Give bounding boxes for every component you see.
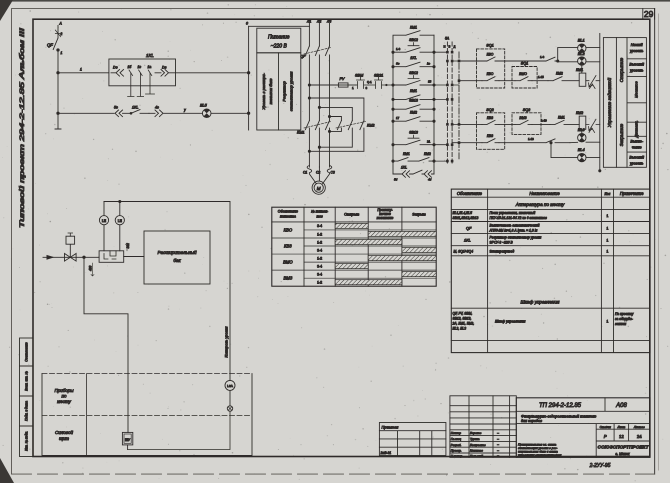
- contactor KM1 main contacts: [297, 121, 331, 135]
- svg-text:С3: С3: [331, 171, 335, 175]
- svg-text:1: 1: [606, 250, 608, 254]
- limit switch box SQ2: [477, 108, 505, 150]
- svg-text:за оборудо-: за оборудо-: [614, 317, 634, 321]
- lamp branch EL1: [557, 48, 600, 63]
- svg-text:1KL: 1KL: [410, 56, 416, 60]
- button SB12 rung: [392, 38, 435, 53]
- svg-text:~: ~: [497, 443, 499, 447]
- motor M: [312, 181, 325, 194]
- svg-text:Низкий: Низкий: [631, 43, 643, 47]
- svg-text:КВЗ: КВЗ: [284, 244, 292, 249]
- contact table headers: [278, 208, 426, 220]
- signal wire to control line: [104, 200, 230, 380]
- lamp branch EL4: [550, 142, 600, 158]
- component table headers: [457, 191, 644, 196]
- wire rung open to lamps: [499, 55, 558, 61]
- svg-text:1: 1: [80, 68, 82, 72]
- terminal strip dashed lines 5A: [444, 37, 456, 164]
- svg-text:Силовой: Силовой: [55, 429, 74, 435]
- project name: [521, 414, 596, 423]
- svg-text:1-2: 1-2: [317, 256, 322, 260]
- svg-text:Высокий: Высокий: [629, 156, 644, 160]
- svg-text:Открытие: Открытие: [619, 57, 624, 82]
- svg-text:КВО: КВО: [487, 72, 494, 76]
- svg-text:2-2УУ-95: 2-2УУ-95: [589, 463, 611, 469]
- svg-text:КМ1: КМ1: [558, 115, 565, 119]
- svg-text:kо: kо: [427, 61, 430, 65]
- svg-text:№ контак-: № контак-: [311, 210, 329, 214]
- svg-text:КВЗ: КВЗ: [487, 134, 494, 138]
- scan corner bottom-left: [0, 458, 14, 483]
- svg-text:12: 12: [619, 434, 624, 439]
- svg-text:Б: Б: [449, 45, 451, 49]
- svg-text:Начмор: Начмор: [451, 431, 462, 435]
- svg-text:SB21: SB21: [374, 74, 383, 78]
- rung close: KVZ contact: [459, 116, 499, 125]
- svg-text:А08: А08: [615, 403, 627, 409]
- svg-text:1: 1: [606, 239, 608, 243]
- svg-text:Разраб.: Разраб.: [451, 443, 462, 447]
- svg-text:4с: 4с: [155, 106, 159, 110]
- svg-text:Л2: Л2: [316, 20, 321, 24]
- svg-text:г. Минск: г. Минск: [615, 452, 630, 456]
- svg-text:ЭРСУ-3 ~220 В: ЭРСУ-3 ~220 В: [490, 241, 514, 245]
- svg-text:Турина: Турина: [470, 437, 480, 441]
- svg-text:1: 1: [61, 51, 63, 55]
- table Привязан: [379, 423, 446, 456]
- cabinet ШУ: [122, 432, 132, 449]
- ladder right rail: [433, 35, 435, 174]
- contact state bars (hatched): [335, 223, 436, 284]
- signature rows text: [451, 431, 499, 458]
- motor leads C1 C2 C3: [303, 166, 335, 184]
- svg-text:Лист: Лист: [617, 425, 626, 429]
- organization: [598, 445, 650, 456]
- interlock contact KM1: [550, 115, 579, 124]
- contact Do: [111, 66, 124, 77]
- electrode 1b: [128, 65, 135, 97]
- svg-text:Регулятор: Регулятор: [282, 80, 287, 101]
- svg-text:Обозначение: Обозначение: [457, 191, 483, 196]
- svg-text:М: М: [317, 186, 321, 191]
- svg-text:КМ1: КМ1: [576, 68, 583, 72]
- pipe inlet arrow: [43, 255, 99, 260]
- lamp branch EL3: [570, 129, 600, 142]
- svg-text:LE: LE: [118, 219, 123, 223]
- terminal squares: [446, 51, 453, 163]
- svg-text:EL1: EL1: [578, 39, 585, 43]
- svg-text:КМ2: КМ2: [410, 111, 417, 115]
- contact KM1 aux rung: [392, 89, 435, 101]
- lamp symbol (panel): [128, 406, 233, 450]
- label: Силовой щит: [55, 429, 74, 441]
- svg-text:FV: FV: [340, 77, 345, 81]
- plug contact 4c: [149, 106, 202, 117]
- svg-text:Приборы: Приборы: [54, 388, 74, 393]
- svg-text:1KL: 1KL: [132, 106, 138, 110]
- svg-text:~: ~: [497, 454, 499, 458]
- stage/sheet cells: [600, 425, 646, 439]
- electrode 1c: [137, 65, 143, 97]
- contact KM1 lower rung: [392, 152, 435, 162]
- svg-text:щит: щит: [59, 436, 69, 441]
- svg-text:уровень: уровень: [629, 162, 644, 166]
- button SB13 lower rung: [392, 131, 435, 146]
- release arrow (close): [586, 119, 600, 131]
- lamp EL5: [200, 104, 249, 118]
- svg-text:1-3: 1-3: [396, 47, 401, 51]
- contact 1KL bottom rung with plugs: [393, 166, 434, 182]
- svg-text:1-3: 1-3: [540, 55, 545, 59]
- level alarm LSA: [225, 380, 235, 406]
- svg-text:SQ2: SQ2: [523, 108, 531, 112]
- svg-text:Выклю-: Выклю-: [630, 140, 643, 144]
- svg-text:Управление задвижкой: Управление задвижкой: [606, 77, 612, 127]
- svg-text:Н.контр.: Н.контр.: [451, 454, 463, 458]
- svg-text:КМ1: КМ1: [297, 131, 305, 135]
- contact Dv: [155, 66, 176, 77]
- svg-text:EL5: EL5: [200, 104, 208, 108]
- svg-text:управления электроприводом: управления электроприводом: [517, 453, 562, 457]
- box Питание ~220В: [257, 28, 301, 53]
- svg-text:Sо: Sо: [396, 61, 400, 65]
- svg-text:LE: LE: [102, 219, 107, 223]
- svg-text:1: 1: [606, 320, 608, 324]
- svg-text:Закрыт: Закрыт: [412, 213, 426, 217]
- phase labels L1 L2 L3: [306, 20, 331, 24]
- svg-text:уровень: уровень: [629, 69, 644, 73]
- drive link marks: [589, 84, 595, 133]
- svg-text:400: 400: [89, 265, 93, 271]
- svg-text:3-4: 3-4: [317, 224, 322, 228]
- page number box 29: [643, 9, 655, 20]
- svg-text:Привязан: Привязан: [382, 426, 400, 430]
- svg-text:EL4: EL4: [578, 148, 585, 152]
- svg-text:Инв. № подл.: Инв. № подл.: [25, 431, 29, 451]
- svg-text:1KL: 1KL: [401, 166, 407, 170]
- svg-text:ВМЗ: ВМЗ: [283, 276, 292, 281]
- svg-text:ШУ: ШУ: [125, 438, 131, 442]
- svg-text:1с: 1с: [138, 65, 142, 69]
- svg-text:КМ1: КМ1: [410, 89, 417, 93]
- coil KM2: [576, 111, 586, 129]
- svg-text:Д: Д: [454, 45, 456, 49]
- svg-text:ТП 294-2-12.85: ТП 294-2-12.85: [539, 403, 582, 409]
- svg-text:0: 0: [246, 22, 248, 26]
- contact 1KL rung: [392, 56, 435, 68]
- svg-text:ванием: ванием: [615, 322, 627, 326]
- gearbox switch box SQ4: [512, 108, 541, 135]
- svg-text:15: 15: [428, 80, 432, 84]
- svg-text:5с: 5с: [114, 106, 118, 110]
- table row: post upravleniya: [453, 211, 609, 220]
- svg-text:2мВ-91: 2мВ-91: [380, 451, 392, 455]
- rung open: KVO contact: [459, 53, 499, 62]
- svg-text:Высокий: Высокий: [629, 63, 644, 67]
- gearbox switch box SQ3: [512, 62, 537, 89]
- label: Низкий уровень: [629, 43, 644, 53]
- dimension 400: [89, 263, 95, 276]
- margin box 1: [20, 338, 34, 366]
- svg-text:Питание: Питание: [268, 35, 290, 41]
- svg-text:~: ~: [497, 437, 499, 441]
- level transmitter LE1: [99, 202, 108, 251]
- electrode 1a: [146, 65, 155, 94]
- svg-text:С2: С2: [316, 171, 320, 175]
- svg-text:4б: 4б: [428, 178, 432, 182]
- wire device to tank: [124, 256, 144, 258]
- table row: electroprivod: [454, 250, 609, 254]
- svg-text:QF: QF: [47, 43, 53, 48]
- svg-text:Н: Н: [444, 45, 446, 49]
- contact VMO: [499, 72, 548, 81]
- svg-text:Л3: Л3: [326, 20, 331, 24]
- breaker QF1 (3-pole): [301, 46, 332, 59]
- limit switch box SQ1: [477, 44, 505, 89]
- svg-text:1-19: 1-19: [541, 119, 547, 123]
- svg-text:Расширительный: Расширительный: [157, 249, 197, 255]
- wire net1 to bus 0: [176, 72, 249, 74]
- svg-text:1а: 1а: [148, 65, 152, 69]
- svg-text:у: у: [183, 108, 186, 112]
- control tap wire: [308, 84, 338, 86]
- svg-text:~: ~: [497, 432, 499, 436]
- svg-text:~220 В: ~220 В: [271, 44, 288, 50]
- box level regulator (vertical labels): [257, 53, 301, 130]
- svg-text:КВО: КВО: [284, 227, 293, 232]
- svg-text:Провер.: Провер.: [451, 449, 462, 453]
- svg-text:SB11,SB12,SB13: SB11,SB12,SB13: [453, 216, 479, 220]
- svg-text:SQ1: SQ1: [521, 62, 529, 66]
- svg-text:Стадия: Стадия: [600, 425, 612, 429]
- svg-text:Физкультурно-оздоровительный к: Физкультурно-оздоровительный комплекс: [521, 414, 596, 418]
- svg-text:тельном баке: тельном баке: [268, 78, 273, 105]
- svg-text:Гл.спец: Гл.спец: [451, 437, 462, 441]
- svg-text:24: 24: [637, 434, 642, 439]
- phase line L2: [318, 24, 320, 168]
- svg-text:Q-1: Q-1: [367, 80, 372, 84]
- svg-text:КМ1: КМ1: [410, 26, 417, 30]
- svg-text:3-4: 3-4: [317, 264, 322, 268]
- svg-text:QF, FV, SBМ,: QF, FV, SBМ,: [453, 312, 473, 316]
- svg-text:SВ12: SВ12: [409, 38, 418, 42]
- svg-text:Примечание: Примечание: [620, 191, 644, 196]
- svg-text:SQ2: SQ2: [486, 108, 494, 112]
- relay 1KL sensor box: [109, 53, 176, 86]
- svg-text:Открыт: Открыт: [344, 213, 359, 217]
- terminal jumpers: [434, 52, 459, 161]
- svg-text:для городов: для городов: [521, 419, 542, 423]
- lamp branch EL2: [558, 62, 600, 73]
- level device (sensor pot): [99, 251, 124, 262]
- svg-text:Dо: Dо: [113, 66, 118, 70]
- svg-text:Шкаф управления: Шкаф управления: [495, 320, 526, 324]
- svg-text:Взам. инв. №: Взам. инв. №: [25, 371, 29, 391]
- svg-text:Dв: Dв: [162, 66, 167, 70]
- svg-text:Уровень в расшири-: Уровень в расшири-: [261, 72, 266, 109]
- svg-text:2А, КМ1, КМ2,: 2А, КМ1, КМ2,: [452, 322, 475, 326]
- svg-text:бак: бак: [173, 258, 181, 263]
- svg-text:Пост управления, кнопочный: Пост управления, кнопочный: [490, 211, 536, 215]
- svg-text:Контроль уровня: Контроль уровня: [225, 326, 229, 357]
- sheet description: [517, 442, 562, 457]
- svg-text:2: 2: [60, 32, 63, 36]
- contact table row labels: [283, 224, 322, 284]
- svg-text:1: 1: [606, 227, 608, 231]
- table row: shkaf upravleniya: [452, 312, 634, 331]
- svg-text:ВМО: ВМО: [283, 260, 293, 265]
- svg-text:29: 29: [644, 9, 654, 19]
- svg-text:Регулятор сигнализатор уровн: Регулятор сигнализатор уровня: [490, 236, 542, 240]
- svg-text:EL2: EL2: [578, 52, 586, 56]
- svg-text:СОЮЗСПОРТПРОЕКТ: СОЮЗСПОРТПРОЕКТ: [598, 445, 650, 451]
- location band frame: [42, 374, 252, 456]
- svg-text:тов: тов: [316, 215, 323, 219]
- svg-text:месту: месту: [57, 399, 71, 404]
- release arrow (open): [586, 76, 600, 88]
- coil KM1: [576, 68, 586, 86]
- svg-text:SB12, SB13,: SB12, SB13,: [453, 317, 472, 321]
- fuse FV: [338, 77, 356, 87]
- svg-text:Наименование: Наименование: [529, 191, 560, 196]
- dimension 302: [126, 243, 131, 251]
- button SB13 rung: [392, 99, 435, 111]
- contact diagram table frame: [272, 207, 436, 286]
- svg-text:уровень: уровень: [629, 49, 644, 53]
- svg-text:~: ~: [497, 449, 499, 453]
- right label block frame: [603, 38, 646, 168]
- margin box 3: [20, 396, 34, 426]
- contact KM2 aux rung: [392, 111, 435, 123]
- svg-text:EL2, EL3: EL2, EL3: [453, 327, 467, 331]
- svg-text:17: 17: [396, 116, 400, 120]
- svg-text:КМ2: КМ2: [576, 111, 583, 115]
- svg-text:ПКУ-15-21.131-54 У2 из 6: ПКУ-15-21.131-54 У2 из 6 элементов: [490, 216, 548, 220]
- svg-text:1-15: 1-15: [538, 75, 544, 79]
- label: Высокий уровень (open): [629, 63, 644, 73]
- plug contact 5c: [114, 106, 123, 117]
- KM2 branch loop 2: [318, 106, 352, 148]
- svg-text:сигнализатор уровня: сигнализатор уровня: [289, 72, 294, 112]
- contact KM1 self-hold (top bypass): [393, 26, 434, 53]
- svg-text:АП50-2М Iн=1,6 А Iуст: АП50-2М Iн=1,6 А Iуст. = 1,3 Iн: [489, 229, 538, 233]
- svg-text:Подп. и дата: Подп. и дата: [25, 401, 29, 421]
- phase line L3: [329, 24, 331, 168]
- svg-text:КМ2: КМ2: [424, 152, 431, 156]
- main title block: [516, 398, 650, 458]
- svg-text:Польский: Польский: [470, 454, 483, 458]
- svg-text:1-2: 1-2: [317, 240, 322, 244]
- svg-text:Закрытие: Закрытие: [619, 123, 624, 146]
- label: Выключение: [630, 140, 643, 150]
- contact VMZ: [499, 116, 550, 125]
- svg-text:SВ12: SВ12: [409, 71, 418, 75]
- svg-text:КВЗ: КВЗ: [487, 116, 494, 120]
- svg-text:Аппаратура по месту: Аппаратура по месту: [515, 202, 565, 207]
- svg-text:3-4: 3-4: [317, 273, 322, 277]
- lamp EL4: [578, 148, 586, 162]
- svg-text:Кол: Кол: [605, 192, 611, 196]
- svg-text:SВ13: SВ13: [409, 99, 418, 103]
- contactor KM2 main contacts: [336, 121, 375, 130]
- svg-text:Местное: Местное: [635, 81, 639, 98]
- svg-text:SВ13: SВ13: [409, 131, 418, 135]
- svg-text:Боронов: Боронов: [470, 431, 482, 435]
- svg-text:5А: 5А: [445, 37, 450, 41]
- svg-text:Безкровнов: Безкровнов: [470, 443, 486, 447]
- scan corner top-left: [0, 0, 13, 21]
- svg-text:Типовой проект 294-2-1: Типовой проект 294-2-12.85 Альбом III: [19, 27, 26, 228]
- margin box 4: [20, 426, 34, 457]
- wire 1 (net 1): [57, 68, 109, 75]
- svg-text:С1: С1: [303, 171, 307, 175]
- svg-text:SBМ: SBМ: [355, 74, 364, 78]
- svg-text:1-18: 1-18: [528, 137, 534, 141]
- lamp EL2: [578, 52, 586, 65]
- svg-text:По проекту: По проекту: [615, 312, 634, 316]
- table row: 1KL: [464, 236, 608, 245]
- component table frame: [451, 189, 650, 353]
- level transmitter LE2: [115, 202, 124, 251]
- svg-text:1KL: 1KL: [464, 239, 471, 243]
- button SBM2 rung (main): [392, 71, 435, 86]
- rung lamps close: KVZ2 contact: [459, 134, 570, 143]
- svg-text:302: 302: [126, 243, 130, 249]
- label: Приборы по месту: [54, 388, 74, 404]
- pipe junction to control: [83, 256, 128, 432]
- svg-text:SQ1: SQ1: [486, 44, 494, 48]
- wire bus0 to phases: [249, 25, 310, 27]
- svg-text:21: 21: [427, 139, 431, 143]
- svg-text:чение: чение: [632, 146, 642, 150]
- svg-text:Начинаев: Начинаев: [470, 449, 483, 453]
- phase line L1: [308, 24, 310, 168]
- svg-text:Л1: Л1: [306, 20, 311, 24]
- rung coil KM1: KVO2 contact: [459, 72, 499, 81]
- svg-text:3-4: 3-4: [317, 248, 322, 252]
- svg-text:1б: 1б: [128, 65, 132, 69]
- contact 1KL (signal): [123, 106, 150, 115]
- svg-text:КМ1: КМ1: [403, 152, 410, 156]
- svg-text:Выключатель автоматический: Выключатель автоматический: [490, 224, 540, 228]
- table row: QF: [466, 224, 608, 233]
- svg-text:Р: Р: [604, 434, 607, 439]
- svg-text:Согласовано: Согласовано: [25, 342, 29, 362]
- svg-text:Шкаф управления: Шкаф управления: [521, 300, 560, 305]
- lamp EL1: [578, 39, 586, 53]
- svg-text:1-2: 1-2: [317, 281, 322, 285]
- lamps bus right rail: [599, 34, 601, 172]
- pushbutton SB11: [367, 74, 393, 89]
- svg-text:EL3: EL3: [578, 128, 586, 132]
- svg-text:ВМЗ: ВМЗ: [519, 116, 527, 120]
- margin box 2: [20, 366, 34, 396]
- svg-text:по: по: [62, 394, 67, 399]
- svg-text:КМ2: КМ2: [367, 124, 375, 128]
- field terminal rail (dash-dot): [458, 52, 461, 160]
- wire 2 (signal lamp circuit): [57, 112, 114, 114]
- svg-text:Электропривод: Электропривод: [490, 250, 515, 254]
- svg-text:QF: QF: [466, 227, 472, 231]
- svg-text:Обозначение: Обозначение: [278, 210, 298, 214]
- signature table: [450, 396, 516, 458]
- breaker QF: [47, 22, 63, 130]
- expansion tank: [144, 231, 210, 284]
- interlock contact KM2: [548, 72, 579, 81]
- svg-text:контакта: контакта: [280, 215, 296, 219]
- ladder left rail: [392, 52, 394, 174]
- bus 0: [246, 22, 250, 131]
